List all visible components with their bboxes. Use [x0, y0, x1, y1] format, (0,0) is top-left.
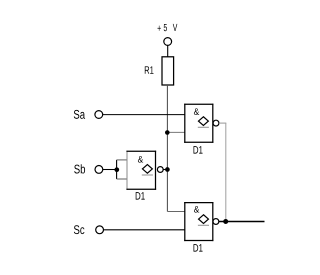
amp symbol gate D1c	[194, 206, 199, 213]
wire Sb tie bar vertical	[116, 160, 118, 179]
wire common output node to right edge	[219, 221, 265, 223]
input terminal Sa	[95, 111, 103, 119]
wire Sc to gate D1c input 2	[104, 229, 185, 231]
net label 5 (of +5 V)	[164, 24, 167, 31]
junction bus / D1b output	[165, 167, 170, 172]
wire +5 V terminal to R1	[167, 46, 169, 57]
junction common output node	[223, 219, 228, 224]
power terminal +5 V	[164, 38, 172, 46]
wire tie bar to gate D1b input 2	[117, 178, 127, 180]
wire pull-up bus vertical (R1 to bend)	[166, 85, 168, 212]
net label V (of +5 V)	[173, 24, 178, 31]
nand gate D1 (middle, open-collector)	[126, 151, 156, 190]
label R1	[145, 66, 154, 73]
label Sc	[74, 225, 84, 234]
label D1 (middle gate)	[136, 192, 145, 199]
label Sb	[74, 164, 85, 173]
wire Sb to tie junction	[103, 169, 117, 171]
inversion bubble D1 bottom output	[213, 219, 219, 225]
wire Sa to gate D1a input 1	[103, 114, 185, 116]
inversion bubble D1 middle output	[157, 167, 163, 173]
junction Sb input tie	[114, 167, 119, 172]
inversion bubble D1 top output	[213, 120, 219, 126]
net label + (of +5 V)	[158, 26, 161, 31]
wire tie bar to gate D1b input 1	[117, 159, 127, 161]
wire right bus vertical D1a to common node	[225, 123, 227, 221]
input terminal Sb	[95, 166, 103, 174]
junction bus / D1a input 2	[165, 130, 170, 135]
amp symbol gate D1a	[194, 108, 199, 115]
label Sa	[74, 110, 85, 119]
wire D1b output to bus	[163, 169, 167, 171]
label D1 (top gate)	[194, 146, 203, 153]
nand gate D1 (top, open-collector)	[184, 104, 213, 143]
resistor R1	[162, 57, 174, 85]
nand gate D1 (bottom, open-collector)	[184, 202, 213, 241]
amp symbol gate D1b	[138, 156, 143, 163]
wire bus bend to gate D1c input 1	[167, 211, 184, 213]
input terminal Sc	[96, 226, 104, 234]
label D1 (bottom gate)	[194, 244, 203, 251]
wire bus to gate D1a input 2	[167, 131, 184, 133]
wire D1a output to right bus	[219, 122, 226, 124]
